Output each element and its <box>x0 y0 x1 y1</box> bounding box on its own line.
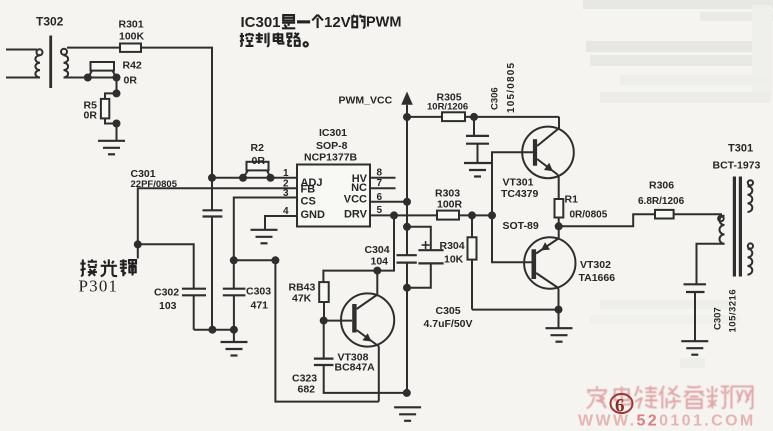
svg-text:SOT-89: SOT-89 <box>503 220 539 232</box>
capacitor C305 <box>407 227 444 288</box>
wm liao <box>707 386 729 409</box>
svg-text:VCC: VCC <box>344 194 367 206</box>
svg-text:C303: C303 <box>246 286 271 298</box>
svg-text:FB: FB <box>301 183 316 195</box>
title note text <box>80 14 401 276</box>
transformer T301 <box>697 177 754 284</box>
svg-text:TC4379: TC4379 <box>501 188 539 200</box>
svg-text:105/3216: 105/3216 <box>728 289 739 333</box>
resistor RB43 <box>319 282 329 321</box>
hanzi shi <box>282 15 295 28</box>
hanzi lu <box>287 33 300 46</box>
node <box>230 256 238 264</box>
hanzi kong <box>240 33 254 46</box>
wm jia <box>587 386 607 409</box>
svg-text:BCT-1973: BCT-1973 <box>713 160 761 172</box>
ground <box>221 330 248 356</box>
PWM_VCC symbol <box>401 92 413 118</box>
hanzi dian <box>274 33 284 44</box>
svg-text:C307: C307 <box>713 307 724 330</box>
svg-text:BC847A: BC847A <box>335 362 376 374</box>
node <box>555 306 563 314</box>
resistor R306 <box>655 210 674 219</box>
svg-text:CS: CS <box>301 196 316 208</box>
full stop <box>304 42 308 46</box>
resistor R305 <box>442 112 465 121</box>
resistor R42 <box>88 62 116 77</box>
svg-text:0R: 0R <box>252 155 266 167</box>
svg-text:T302: T302 <box>36 15 64 29</box>
capacitor C306 <box>466 117 489 163</box>
node <box>403 113 411 121</box>
node <box>84 74 92 82</box>
svg-text:IC301: IC301 <box>241 14 281 31</box>
pin 6 wire VCC <box>370 201 407 203</box>
resistor R5 <box>101 93 117 123</box>
svg-text:4.7uF/50V: 4.7uF/50V <box>424 318 473 330</box>
wire VT301 VT302 base link <box>492 152 533 262</box>
svg-text:T301: T301 <box>728 143 753 155</box>
transistor VT301 <box>522 117 574 199</box>
capacitor C307 <box>684 284 707 341</box>
svg-text:100R: 100R <box>437 199 463 211</box>
resistor R304 <box>468 215 477 309</box>
svg-text:10R/1206: 10R/1206 <box>427 102 468 113</box>
svg-text:12V: 12V <box>324 14 351 31</box>
wm wang <box>731 386 752 408</box>
svg-text:P301: P301 <box>79 277 119 296</box>
T302 core <box>49 36 52 89</box>
node <box>208 326 216 334</box>
node <box>230 326 238 334</box>
svg-text:VT301: VT301 <box>503 177 534 189</box>
svg-text:4: 4 <box>283 206 289 217</box>
hanzi ge <box>312 15 323 28</box>
node <box>403 284 411 292</box>
node <box>113 89 121 97</box>
resistor R2 <box>244 162 271 177</box>
svg-text:PWM_VCC: PWM_VCC <box>339 95 393 107</box>
node <box>555 222 563 230</box>
wire VCC vertical <box>406 117 408 255</box>
wire <box>275 260 378 401</box>
svg-text:6: 6 <box>377 192 383 203</box>
node <box>403 223 411 231</box>
svg-text:C302: C302 <box>154 287 179 299</box>
node <box>113 120 121 128</box>
hanzi de <box>352 15 364 28</box>
wire T302 bottom to R42 <box>64 77 117 79</box>
wire DRV feedback <box>323 215 394 282</box>
svg-text:104: 104 <box>371 256 389 268</box>
ground <box>394 407 421 421</box>
wire <box>116 78 118 94</box>
wire CS row <box>234 198 297 289</box>
ground <box>251 230 278 244</box>
svg-text:682: 682 <box>298 384 316 396</box>
wire R1 to R306 <box>559 214 655 226</box>
wm zi <box>684 386 704 408</box>
svg-text:R2: R2 <box>251 142 265 154</box>
svg-text:PWM: PWM <box>366 15 401 31</box>
node <box>373 267 381 275</box>
capacitor C323 <box>314 321 407 393</box>
svg-text:SOP-8: SOP-8 <box>316 140 348 152</box>
hanzi guang <box>101 259 117 276</box>
svg-text:22PF/0805: 22PF/0805 <box>131 179 178 190</box>
svg-text:WWW.520101.COM: WWW.520101.COM <box>578 413 756 430</box>
svg-text:5: 5 <box>377 205 383 216</box>
svg-text:47K: 47K <box>292 293 312 305</box>
pin 5 wire DRV <box>370 214 437 216</box>
node <box>271 256 279 264</box>
svg-text:0R: 0R <box>124 75 138 87</box>
svg-text:0R/0805: 0R/0805 <box>570 210 608 221</box>
node <box>468 211 476 219</box>
wm xiu <box>659 386 681 409</box>
svg-text:R306: R306 <box>649 180 674 192</box>
pin 7 stub <box>370 187 396 189</box>
wire CS link down <box>234 259 276 261</box>
svg-text:0R: 0R <box>84 110 98 122</box>
capacitor C302 <box>182 289 206 330</box>
wire <box>465 116 559 118</box>
svg-text:NC: NC <box>351 182 367 194</box>
resistor R301 <box>120 44 141 52</box>
capacitor C301 <box>203 210 223 329</box>
svg-text:R42: R42 <box>123 60 142 72</box>
svg-text:VT302: VT302 <box>580 259 611 271</box>
hanzi jie <box>80 259 97 276</box>
svg-text:R304: R304 <box>440 240 465 252</box>
ground <box>546 328 573 342</box>
IC U301 NCP1377B body <box>297 165 370 227</box>
svg-text:R301: R301 <box>119 19 144 31</box>
hanzi ou <box>120 259 137 276</box>
node <box>390 211 398 219</box>
svg-text:103: 103 <box>159 300 177 312</box>
node <box>470 113 478 121</box>
red watermark <box>587 386 753 409</box>
wire <box>116 124 118 141</box>
wire ADJ row <box>212 177 297 179</box>
pin 8 stub <box>370 177 396 179</box>
svg-text:DRV: DRV <box>344 209 368 221</box>
node <box>267 174 275 182</box>
svg-text:C305: C305 <box>436 305 461 317</box>
wire FB row <box>138 188 297 258</box>
red stamp circled 6 <box>611 394 633 417</box>
svg-text:10K: 10K <box>444 254 464 266</box>
wire <box>674 213 722 215</box>
wire to C302 <box>138 244 194 288</box>
svg-text:NCP1377B: NCP1377B <box>304 152 358 164</box>
resistor R303 <box>437 211 459 220</box>
node <box>403 389 411 397</box>
svg-text:7: 7 <box>377 178 383 189</box>
wire <box>6 77 40 79</box>
svg-text:GND: GND <box>301 209 326 221</box>
node <box>488 211 496 219</box>
wire <box>459 214 492 216</box>
wire <box>6 49 37 51</box>
resistor R1 <box>555 199 564 226</box>
svg-text:IC301: IC301 <box>319 127 347 139</box>
svg-text:R1: R1 <box>565 194 579 206</box>
svg-text:C304: C304 <box>365 244 390 256</box>
transformer T302 <box>6 36 68 89</box>
ground <box>681 341 708 355</box>
hanzi zhi <box>256 33 269 46</box>
node <box>403 198 411 206</box>
svg-text:105/0805: 105/0805 <box>506 62 517 113</box>
capacitor C303 <box>223 289 246 330</box>
wire GND pin row <box>265 216 297 230</box>
wm wei <box>635 386 658 409</box>
svg-text:6.8R/1206: 6.8R/1206 <box>638 196 685 207</box>
capacitor C304 <box>397 255 417 393</box>
wire ground rail <box>194 329 234 331</box>
node <box>239 174 247 182</box>
wire <box>407 116 442 118</box>
svg-text:8: 8 <box>377 168 383 179</box>
node <box>320 317 328 325</box>
svg-text:1: 1 <box>283 168 289 179</box>
node <box>134 240 142 248</box>
T302 secondary winding <box>61 49 67 55</box>
node <box>113 74 121 82</box>
node <box>208 174 216 182</box>
svg-text:471: 471 <box>251 300 269 312</box>
ground <box>464 163 491 177</box>
transistor VT308 <box>324 271 395 402</box>
svg-text:3: 3 <box>283 188 289 199</box>
T302 primary winding <box>37 49 43 55</box>
transistor VT302 <box>524 226 575 327</box>
wire R301 to corner <box>141 48 212 211</box>
wm dian <box>615 386 631 404</box>
ground <box>98 141 125 155</box>
svg-text:C306: C306 <box>490 87 501 110</box>
wire top from T302 to R301 <box>67 47 120 49</box>
svg-text:100K: 100K <box>119 31 145 43</box>
wire <box>472 309 559 311</box>
hanzi yi <box>297 21 310 23</box>
svg-text:TA1666: TA1666 <box>579 272 616 284</box>
